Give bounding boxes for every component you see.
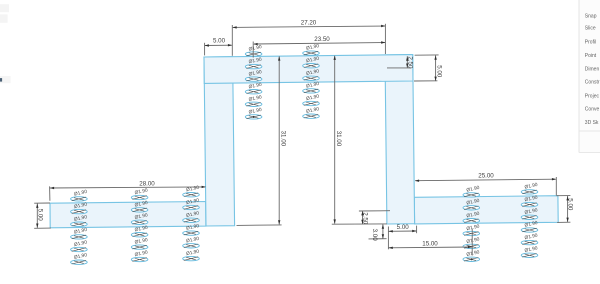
dimension 5.00 top-right <box>414 55 443 81</box>
sketch point on hole A1-6 <box>253 116 255 118</box>
dimension 31.00 right <box>332 56 387 225</box>
hole A2-6 Ø1.90 <box>303 106 320 118</box>
dimension 3.00 <box>369 224 387 241</box>
hole B3-2 Ø1.90 <box>183 197 200 209</box>
svg-text:31.00: 31.00 <box>279 131 286 147</box>
hole A2-4 Ø1.90 <box>303 81 320 93</box>
dimension 23.50 <box>253 36 385 58</box>
hole A1-4 Ø1.90 <box>245 82 262 94</box>
svg-text:3.00: 3.00 <box>371 229 378 242</box>
dimension 15.00 <box>389 229 473 256</box>
svg-text:Snap: Snap <box>585 14 597 20</box>
hole C2-4 Ø1.90 <box>521 220 538 232</box>
dimension 5.00 bottom-right <box>557 196 574 223</box>
dimension 28.00 <box>50 180 206 201</box>
toolbar button 2 <box>0 14 8 22</box>
hole B2-3 Ø1.90 <box>131 212 148 224</box>
hole C2-1 Ø1.90 <box>521 182 538 194</box>
hole A2-3 Ø1.90 <box>303 68 320 80</box>
hole B3-3 Ø1.90 <box>183 210 200 222</box>
svg-text:Dimen: Dimen <box>585 66 600 72</box>
svg-text:5.00: 5.00 <box>397 224 410 231</box>
hole B1-5 Ø1.90 <box>71 239 88 251</box>
right context-menu panel <box>579 0 600 153</box>
dimension 5.00 top-left <box>205 37 233 55</box>
hole B1-1 Ø1.90 <box>71 189 88 201</box>
svg-text:Slice: Slice <box>585 26 596 32</box>
hole A2-5 Ø1.90 <box>303 93 320 105</box>
hole A1-1 Ø1.90 <box>245 44 262 56</box>
hole B3-5 Ø1.90 <box>183 236 200 248</box>
hole B2-5 Ø1.90 <box>131 237 148 249</box>
svg-text:Conve: Conve <box>585 107 600 113</box>
svg-text:3D Sk: 3D Sk <box>585 120 599 126</box>
dimension 31.00 left <box>237 56 287 225</box>
svg-text:5.00: 5.00 <box>213 37 226 44</box>
sketch point on hole C1-6 <box>471 258 473 260</box>
svg-text:Point: Point <box>585 53 597 59</box>
hole A1-3 Ø1.90 <box>245 69 262 81</box>
hole B3-6 Ø1.90 <box>183 249 200 261</box>
svg-text:25.00: 25.00 <box>478 172 494 179</box>
hole B1-3 Ø1.90 <box>71 214 88 226</box>
top rail <box>204 55 413 84</box>
hole A2-2 Ø1.90 <box>303 56 320 68</box>
hole B2-2 Ø1.90 <box>131 200 148 212</box>
hole C1-5 Ø1.90 <box>463 236 480 248</box>
bottom-right rail <box>414 196 558 224</box>
hole C2-3 Ø1.90 <box>521 207 538 219</box>
dimension 25.00 <box>415 172 557 195</box>
svg-text:Constr: Constr <box>585 80 600 86</box>
svg-text:15.00: 15.00 <box>422 241 438 248</box>
hole B3-1 Ø1.90 <box>183 185 200 197</box>
dimension 5.00 bottom-left <box>34 203 51 228</box>
hole A1-6 Ø1.90 <box>245 107 262 119</box>
svg-text:23.50: 23.50 <box>314 36 330 43</box>
hole B1-6 Ø1.90 <box>71 252 88 264</box>
svg-text:27.20: 27.20 <box>301 20 317 27</box>
hole B2-1 Ø1.90 <box>131 187 148 199</box>
hole C2-5 Ø1.90 <box>521 233 538 245</box>
svg-text:Projec: Projec <box>585 93 600 99</box>
svg-text:2.50: 2.50 <box>407 56 414 69</box>
svg-text:Profil: Profil <box>585 39 596 45</box>
hole A1-2 Ø1.90 <box>245 57 262 69</box>
svg-text:2.50: 2.50 <box>362 212 369 225</box>
dimension 5.00 bottom-middle <box>388 224 416 249</box>
dimension 2.50 bottom-middle <box>359 211 390 225</box>
hole C1-3 Ø1.90 <box>463 211 480 223</box>
svg-text:5.00: 5.00 <box>436 65 443 78</box>
svg-text:28.00: 28.00 <box>139 180 155 187</box>
hole B2-4 Ø1.90 <box>131 225 148 237</box>
left column <box>204 57 235 226</box>
hole C1-2 Ø1.90 <box>463 198 480 210</box>
toolbar button 1 <box>0 4 9 12</box>
hole A2-1 Ø1.90 <box>303 43 320 55</box>
svg-text:5.00: 5.00 <box>37 209 44 222</box>
svg-text:31.00: 31.00 <box>335 131 342 147</box>
hole B1-2 Ø1.90 <box>71 202 88 214</box>
hole C2-6 Ø1.90 <box>521 245 538 257</box>
hole A1-5 Ø1.90 <box>245 94 262 106</box>
hole C1-6 Ø1.90 <box>463 249 480 261</box>
hole C1-4 Ø1.90 <box>463 223 480 235</box>
hole B2-6 Ø1.90 <box>131 249 148 261</box>
hole C1-1 Ø1.90 <box>463 185 480 197</box>
right column <box>385 55 415 224</box>
dimension 2.50 top-right <box>387 56 414 69</box>
bottom-left rail <box>50 202 206 228</box>
hole C2-2 Ø1.90 <box>521 195 538 207</box>
svg-text:5.00: 5.00 <box>567 198 574 211</box>
dimension 27.20 <box>232 20 385 56</box>
hole B3-4 Ø1.90 <box>183 223 200 235</box>
hole B1-4 Ø1.90 <box>71 227 88 239</box>
toolbar button 3 <box>0 76 11 83</box>
